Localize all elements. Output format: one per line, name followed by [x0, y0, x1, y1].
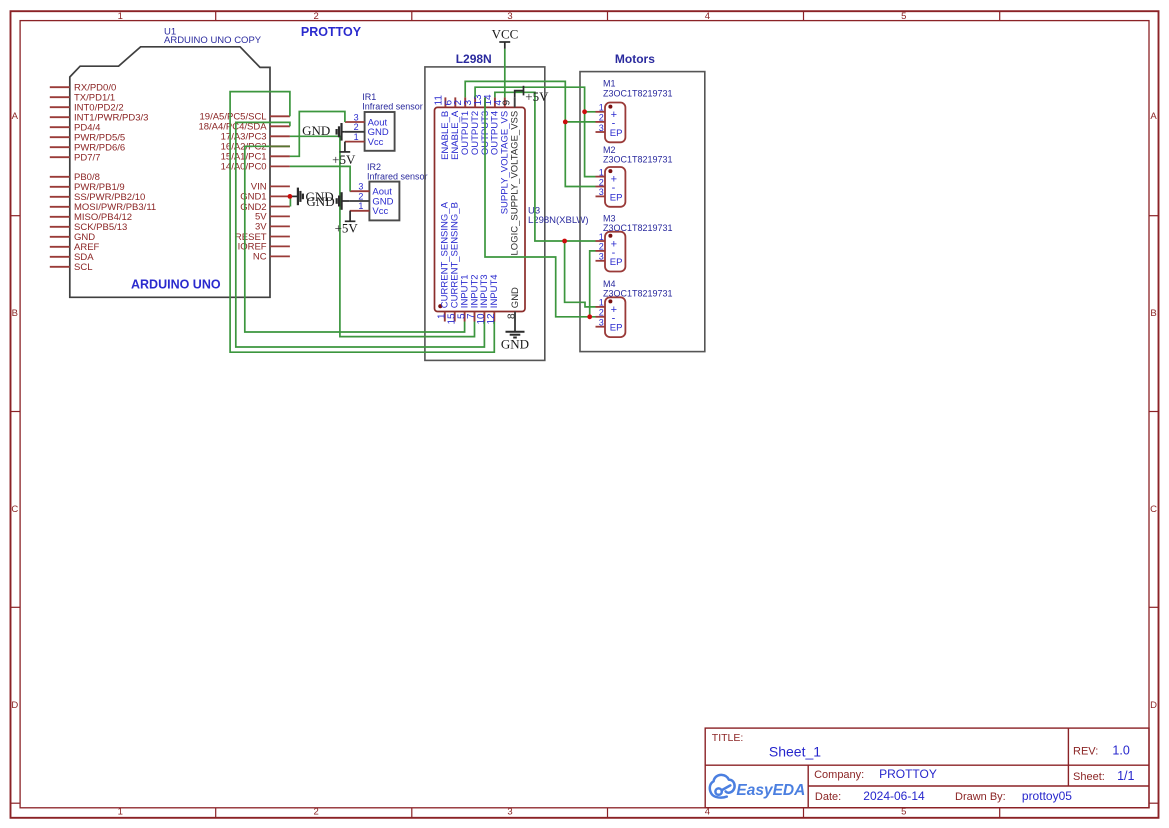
- M3 pins: [596, 241, 606, 261]
- svg-text:PROTTOY: PROTTOY: [301, 25, 362, 39]
- svg-text:2: 2: [599, 113, 604, 123]
- M1 refdes: [603, 79, 673, 99]
- svg-text:Infrared sensor: Infrared sensor: [367, 171, 428, 181]
- U3 pin 9 number: [502, 100, 513, 106]
- svg-text:1: 1: [599, 167, 604, 177]
- IR2 pins: [350, 191, 370, 211]
- svg-text:PD7/7: PD7/7: [74, 153, 100, 164]
- U3 bottom pins: [445, 312, 495, 322]
- ground flag GND at IR2 pin 2: [337, 192, 350, 210]
- M4 pin numbers: [599, 298, 604, 328]
- op-amp U1 ARDUINO UNO body: [70, 47, 270, 297]
- wire net A3: U1 17/A3 to U3 INPUT2: [290, 136, 475, 336]
- svg-text:C: C: [1150, 504, 1157, 515]
- wire net OUTPUT3: U3 pin 13 to M4- and M3-: [485, 97, 596, 316]
- svg-text:3: 3: [599, 187, 604, 197]
- EasyEDA logo: [710, 775, 735, 798]
- wire net OUTPUT4: U3 pin 14 to M3+ and M4+: [495, 92, 596, 241]
- IR1 pin numbers: [354, 112, 359, 142]
- U3 pin 8 stub: [514, 312, 516, 322]
- svg-text:1: 1: [354, 132, 359, 142]
- svg-text:Drawn By:: Drawn By:: [955, 791, 1006, 803]
- M1 polarity dot and pin names: [608, 105, 622, 139]
- svg-text:Motors: Motors: [615, 52, 655, 66]
- svg-text:9: 9: [502, 100, 513, 106]
- svg-text:A: A: [12, 111, 19, 122]
- svg-text:B: B: [12, 308, 18, 319]
- svg-text:IR2: IR2: [367, 162, 381, 172]
- svg-text:Infrared sensor: Infrared sensor: [362, 102, 423, 112]
- IR2 refdes: [367, 162, 428, 182]
- U3 top pin names: [440, 110, 510, 214]
- U3 pin 9 name: [510, 111, 521, 256]
- title block frame: [705, 728, 1149, 808]
- M3 pin numbers: [599, 232, 604, 262]
- M1 pin numbers: [599, 103, 604, 133]
- M4 refdes: [603, 279, 673, 299]
- svg-text:SCL: SCL: [74, 262, 92, 273]
- wire net A2: U1 16/A2 to U3 INPUT1: [245, 146, 465, 332]
- svg-text:Z3OC1T8219731: Z3OC1T8219731: [603, 155, 673, 165]
- svg-text:LOGIC_SUPPLY_VOLTAGE_VSS: LOGIC_SUPPLY_VOLTAGE_VSS: [510, 111, 521, 256]
- M2 refdes: [603, 145, 673, 165]
- ground flag GND at IR1 pin 2: [337, 123, 345, 141]
- junction OUTPUT2/M1 pin1: [582, 109, 587, 114]
- svg-text:B: B: [1150, 308, 1156, 319]
- svg-text:2: 2: [599, 177, 604, 187]
- svg-text:8: 8: [507, 313, 518, 319]
- svg-text:1/1: 1/1: [1117, 769, 1134, 783]
- M1 pins: [596, 112, 606, 132]
- svg-text:3: 3: [358, 182, 363, 192]
- svg-text:EP: EP: [610, 128, 623, 139]
- U3 pin 8 number: [507, 313, 518, 319]
- sensor IR1 body: [365, 112, 395, 151]
- M4 pins: [596, 307, 606, 327]
- M3 refdes: [603, 214, 673, 234]
- svg-text:2: 2: [314, 807, 319, 818]
- svg-text:PROTTOY: PROTTOY: [879, 767, 937, 781]
- connector M1 body: [605, 103, 625, 143]
- IR1 pin names: [368, 117, 389, 148]
- title block labels: [712, 732, 1105, 803]
- sensor IR2 body: [369, 182, 399, 221]
- wire net SCL: U1 19/A5 to U3 INPUT4: [230, 92, 494, 353]
- connector M4 body: [605, 297, 625, 337]
- svg-text:A: A: [1150, 111, 1157, 122]
- junction OUTPUT4/M3 pin1: [562, 239, 567, 244]
- svg-text:2: 2: [599, 242, 604, 252]
- M2 polarity dot and pin names: [608, 169, 622, 203]
- svg-text:5: 5: [901, 11, 906, 22]
- U1 left pin names: [74, 83, 156, 274]
- svg-text:1: 1: [358, 201, 363, 211]
- svg-text:+5V: +5V: [335, 221, 359, 236]
- svg-text:M4: M4: [603, 279, 616, 289]
- svg-text:2: 2: [599, 308, 604, 318]
- svg-text:Company:: Company:: [814, 769, 864, 781]
- svg-text:Sheet_1: Sheet_1: [769, 744, 821, 760]
- IR2 pin names: [372, 187, 393, 218]
- wire net OUTPUT1: U3 pin 2 to M1- and M2-: [465, 81, 595, 186]
- svg-text:GND: GND: [501, 336, 529, 351]
- svg-text:1: 1: [118, 807, 123, 818]
- wire net VCC to U3 pin 4: [504, 49, 506, 98]
- title block values: [769, 744, 1135, 804]
- U3 refdes: [528, 206, 589, 226]
- junction at U1 GND1: [288, 194, 293, 199]
- power flag VCC: [499, 42, 510, 49]
- IR1 pins: [345, 122, 365, 142]
- svg-text:2: 2: [314, 11, 319, 22]
- M2 pin numbers: [599, 167, 604, 197]
- ground flag GND at U3 pin 8 (earth): [506, 322, 525, 338]
- connector M3 body: [605, 232, 625, 272]
- module box L298N: [425, 67, 545, 361]
- IR2 pin numbers: [358, 182, 363, 212]
- power flag +5V at IR2 pin 1: [345, 211, 356, 222]
- U3 pin 8 name: [510, 287, 521, 308]
- svg-text:Vcc: Vcc: [368, 137, 384, 148]
- wire overlap shade on U1 16/A2 pin stub: [270, 145, 290, 147]
- wire net A1: U1 15/A1 to IR1 Aout: [290, 112, 345, 157]
- U1 right pins: [270, 116, 290, 256]
- ic U3 body: [435, 107, 526, 311]
- svg-text:1: 1: [599, 298, 604, 308]
- wire branch OUTPUT2 to M1 pin 1: [585, 111, 596, 113]
- svg-text:3: 3: [599, 318, 604, 328]
- U3 pin 1 marker dot: [438, 304, 442, 308]
- svg-text:prottoy05: prottoy05: [1022, 789, 1072, 803]
- svg-text:2024-06-14: 2024-06-14: [863, 789, 925, 803]
- wire net A0: U1 14/A0 to IR2 Aout: [290, 166, 350, 191]
- svg-text:TITLE:: TITLE:: [712, 732, 744, 744]
- svg-text:L298N: L298N: [456, 52, 492, 66]
- svg-text:M1: M1: [603, 79, 616, 89]
- wire net SDA: U1 18/A4 to U3 INPUT3: [236, 122, 485, 347]
- svg-text:IR1: IR1: [362, 92, 376, 102]
- svg-text:+5V: +5V: [332, 152, 356, 167]
- wire GND1 to GND2 link: [289, 196, 291, 206]
- svg-text:INPUT4: INPUT4: [489, 274, 500, 308]
- svg-text:ARDUINO UNO: ARDUINO UNO: [131, 277, 221, 291]
- svg-text:GND: GND: [510, 287, 521, 308]
- svg-text:1.0: 1.0: [1112, 744, 1129, 758]
- svg-text:3: 3: [354, 112, 359, 122]
- svg-text:Z3OC1T8219731: Z3OC1T8219731: [603, 223, 673, 233]
- U3 top pin numbers: [433, 94, 503, 106]
- svg-text:12: 12: [486, 313, 497, 325]
- power flag +5V at IR1 pin 1: [340, 142, 351, 152]
- wire branch OUTPUT1 to M1 pin 2: [565, 121, 595, 123]
- U1 right pin names: [198, 112, 267, 263]
- svg-text:EP: EP: [610, 323, 623, 334]
- junction OUTPUT3/M4 pin2: [587, 314, 592, 319]
- U3 pin 9 stub: [514, 97, 516, 107]
- svg-text:3: 3: [599, 252, 604, 262]
- M3 polarity dot and pin names: [608, 234, 622, 268]
- svg-text:4: 4: [705, 11, 710, 22]
- power flag +5V at U3 pin 9: [515, 86, 524, 98]
- svg-text:Date:: Date:: [815, 791, 841, 803]
- wire branch OUTPUT3 to M3 pin 2: [590, 251, 596, 317]
- svg-text:D: D: [1150, 700, 1157, 711]
- svg-text:REV:: REV:: [1073, 746, 1098, 758]
- svg-text:2: 2: [354, 122, 359, 132]
- U3 bottom pin numbers: [437, 313, 498, 325]
- wire branch OUTPUT4 to M4 pin 1: [565, 241, 596, 307]
- svg-text:1: 1: [118, 11, 123, 22]
- svg-text:D: D: [11, 700, 18, 711]
- svg-text:3: 3: [507, 11, 512, 22]
- svg-text:3: 3: [599, 123, 604, 133]
- svg-text:EasyEDA: EasyEDA: [736, 782, 805, 799]
- svg-text:M3: M3: [603, 214, 616, 224]
- svg-text:Vcc: Vcc: [372, 206, 388, 217]
- M4 polarity dot and pin names: [608, 299, 622, 333]
- wire net OUTPUT2: U3 pin 3 to M1+ and M2+: [475, 87, 595, 176]
- svg-text:GND: GND: [302, 123, 330, 138]
- U3 bottom pin names: [440, 201, 501, 308]
- svg-text:M2: M2: [603, 145, 616, 155]
- IR1 refdes: [362, 92, 423, 112]
- svg-text:NC: NC: [253, 252, 267, 263]
- U1 left pins: [50, 87, 70, 267]
- svg-text:Z3OC1T8219731: Z3OC1T8219731: [603, 88, 673, 98]
- module box Motors: [580, 72, 705, 352]
- U3 top pins: [445, 97, 504, 107]
- svg-text:Sheet:: Sheet:: [1073, 771, 1105, 783]
- U1 refdes: [164, 27, 262, 46]
- connector M2 body: [605, 167, 625, 207]
- svg-text:3: 3: [507, 807, 512, 818]
- svg-text:EP: EP: [610, 192, 623, 203]
- svg-text:EP: EP: [610, 257, 623, 268]
- svg-text:VCC: VCC: [492, 26, 519, 41]
- svg-text:ARDUINO UNO COPY: ARDUINO UNO COPY: [164, 35, 262, 46]
- svg-text:2: 2: [358, 191, 363, 201]
- module label L298N: [456, 52, 492, 66]
- svg-text:1: 1: [599, 103, 604, 113]
- svg-text:Z3OC1T8219731: Z3OC1T8219731: [603, 289, 673, 299]
- M2 pins: [596, 177, 606, 197]
- svg-text:GND: GND: [306, 194, 334, 209]
- svg-text:1: 1: [599, 232, 604, 242]
- svg-text:+5V: +5V: [525, 89, 549, 104]
- svg-text:14/A0/PC0: 14/A0/PC0: [221, 162, 267, 173]
- junction OUTPUT1/M1 pin2: [563, 120, 568, 125]
- ground flag GND at U1 GND1/GND2: [290, 188, 303, 206]
- U1 value ARDUINO UNO: [131, 277, 221, 291]
- module label Motors: [615, 52, 655, 66]
- svg-text:C: C: [11, 504, 18, 515]
